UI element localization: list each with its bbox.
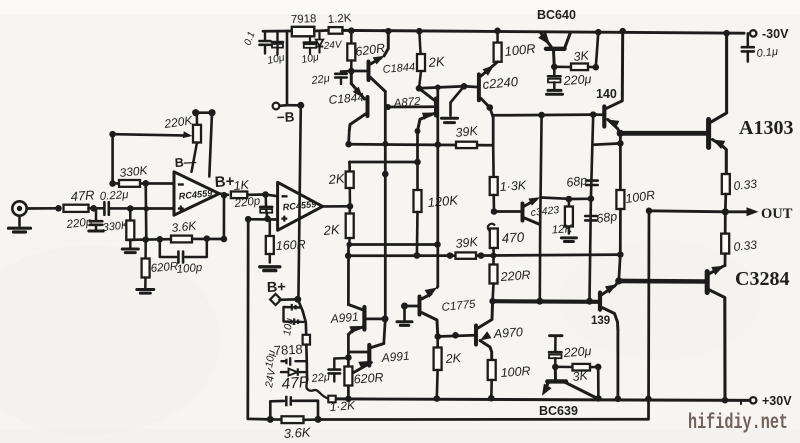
capacitor 220u (BC640) <box>547 67 563 94</box>
node y115 x593 <box>590 111 597 118</box>
op-amp U2 RC4559 <box>278 182 323 230</box>
capacitor 10u (7818 out) <box>282 357 307 366</box>
transistor C1844 (a) <box>369 31 389 91</box>
pot wiper arrow <box>183 131 192 138</box>
resistor 1.3K <box>490 145 498 211</box>
zener 24V <box>316 31 324 53</box>
svg-text:0.33: 0.33 <box>733 238 758 254</box>
svg-text:B—: B— <box>174 155 197 170</box>
capacitor 68p (upper) <box>586 181 598 185</box>
svg-text:B+: B+ <box>214 173 235 191</box>
resistor 12K <box>565 199 573 234</box>
resistor 620R (A991) <box>344 367 352 386</box>
resistor 330K (input to gnd) <box>126 209 134 241</box>
svg-text:2K: 2K <box>427 54 446 71</box>
svg-text:10μ: 10μ <box>281 317 295 336</box>
ground (160R) <box>260 267 280 271</box>
wire reg to 1.2K <box>314 29 328 32</box>
node x649 rail <box>645 396 652 403</box>
node B+ column <box>294 296 301 303</box>
resistor 100R (C2240) <box>494 31 502 62</box>
wire B+ link <box>280 298 298 301</box>
svg-text:470: 470 <box>501 229 525 246</box>
wire A991b base stub <box>350 351 367 354</box>
node x146 on input line <box>144 206 150 212</box>
svg-text:3K: 3K <box>572 368 589 384</box>
resistor 160R <box>266 220 274 263</box>
svg-text:2K: 2K <box>444 351 462 366</box>
wire -minus feedback line <box>113 182 119 185</box>
potentiometer 220K <box>192 113 202 172</box>
svg-text:−B: −B <box>277 109 295 125</box>
svg-text:1.2K: 1.2K <box>327 12 352 26</box>
resistor 3K (BC639) <box>558 364 598 371</box>
svg-text:22μ: 22μ <box>310 371 330 385</box>
resistor 100R (A970) <box>488 360 496 398</box>
svg-text:24V: 24V <box>322 39 343 52</box>
svg-text:7918: 7918 <box>291 13 317 26</box>
svg-text:3K: 3K <box>573 48 590 64</box>
wire C1844a base link <box>351 70 366 73</box>
node rail 620R/A991 <box>345 396 352 403</box>
node rail 100R <box>494 28 501 35</box>
node C1775 emitter <box>435 333 442 340</box>
svg-text:c2240: c2240 <box>482 74 519 92</box>
svg-text:hifidiy.net: hifidiy.net <box>688 412 788 435</box>
capacitor 22u (A991) <box>329 358 349 382</box>
resistor 1K <box>231 192 247 199</box>
wire collector to 1.3K node <box>490 108 493 146</box>
node x540 y301 <box>536 298 543 305</box>
node A970 base tap <box>452 332 459 339</box>
node fb2 <box>157 236 164 243</box>
resistor 1.2K (top) <box>329 27 343 34</box>
wire x438 vertical <box>436 87 439 286</box>
node A872 gnd link <box>461 83 468 90</box>
node loop right <box>315 416 322 423</box>
capacitor 0.1 (reg in) <box>260 31 271 53</box>
node rail 100R <box>488 395 495 402</box>
node U1 out <box>221 192 228 199</box>
svg-text:A991: A991 <box>380 349 410 365</box>
capacitor 0.1u (-30V) <box>742 33 754 61</box>
node y244 left <box>346 242 352 248</box>
regulator 7818 (small box) <box>303 335 310 345</box>
wire -B to column <box>287 104 301 107</box>
svg-text:139: 139 <box>591 315 610 327</box>
node 220p bottom <box>264 216 271 223</box>
wire C2240 base link <box>464 85 477 88</box>
node rail C3284 <box>722 397 729 404</box>
wire 3K drop <box>597 367 600 399</box>
transistor C2240 <box>479 62 498 108</box>
ground (330K) <box>129 240 132 248</box>
svg-text:0.22μ: 0.22μ <box>99 189 129 203</box>
wire A991a collector riser <box>347 245 350 305</box>
resistor 120K <box>414 162 422 256</box>
svg-text:7818: 7818 <box>273 342 303 358</box>
svg-text:3.6K: 3.6K <box>171 218 198 235</box>
resistor 3.6K (bottom) <box>270 416 318 423</box>
node rail 3K <box>595 29 602 36</box>
node x438 y244 <box>434 241 441 248</box>
resistor 220R <box>490 248 498 301</box>
node fb4 <box>221 236 228 243</box>
node out left <box>646 208 653 215</box>
wire thick emitter line to A1303 <box>620 131 706 136</box>
transistor A991 (a) <box>348 305 364 335</box>
svg-text:220R: 220R <box>499 268 531 284</box>
transistor 140 <box>604 31 622 133</box>
node rail 2K <box>416 28 423 35</box>
resistor 2K (C1775) <box>434 337 442 399</box>
wire C3423 collector to 12K node <box>541 198 569 199</box>
wire 139 base line <box>493 299 598 304</box>
capacitor 220u (BC639) <box>549 336 562 367</box>
svg-text:B+: B+ <box>267 279 286 296</box>
node rail C1844 <box>385 28 392 35</box>
wire A991a base link <box>367 318 386 321</box>
node 68p mid <box>588 195 595 202</box>
wire y144 right link <box>593 143 620 144</box>
wire top rail left segment <box>263 30 292 33</box>
node 39K a <box>447 252 454 259</box>
node A872 collector <box>416 85 423 92</box>
wire B- stub into op-amp <box>209 113 212 177</box>
wire squiggle to 1.2K <box>306 378 328 399</box>
node rail 620R <box>348 27 355 34</box>
svg-text:47R: 47R <box>70 187 95 204</box>
resistor 39K (lower) <box>456 252 477 258</box>
wire cap to node <box>109 207 131 210</box>
node input net <box>127 205 134 212</box>
svg-text:BC639: BC639 <box>539 404 578 418</box>
node C1844 base net <box>348 68 355 75</box>
wire fb long vertical x248 <box>248 219 270 419</box>
node -B column top <box>297 102 304 109</box>
svg-text:A1303: A1303 <box>739 117 793 139</box>
terminal -30V <box>750 30 756 36</box>
svg-text:1K: 1K <box>233 178 250 193</box>
svg-text:OUT: OUT <box>761 206 793 222</box>
node 39K b <box>478 252 485 259</box>
node after 47R <box>90 205 97 212</box>
node 22u/620R <box>345 354 352 361</box>
svg-text:A970: A970 <box>492 325 523 341</box>
transistor C3284 <box>707 266 725 401</box>
svg-text:A991: A991 <box>329 310 359 326</box>
wire x620 vertical <box>619 133 622 190</box>
ground (input jack) <box>9 216 31 232</box>
node 220K wiper net <box>109 131 116 138</box>
wire thick to C3284 base <box>619 279 705 284</box>
node y115 x542 <box>538 112 545 119</box>
wire OUT line <box>649 211 725 212</box>
wire U2 plus line <box>248 218 277 221</box>
resistor 620R (fb gnd) <box>142 240 150 288</box>
capacitor 220p (U2) <box>260 195 272 219</box>
svg-text:220μ: 220μ <box>562 344 592 360</box>
node fb right <box>142 180 149 187</box>
node 39K left <box>345 253 352 260</box>
node feedback tap <box>245 216 252 223</box>
resistor 330K (feedback) <box>119 180 140 187</box>
node rail A1303 <box>723 30 730 37</box>
transistor C1844 (b) <box>349 71 367 131</box>
node 139 collector <box>615 277 622 284</box>
node y144 x386 <box>382 141 388 147</box>
node 39K 120K <box>414 252 421 259</box>
wire 139 emitter down <box>616 330 619 399</box>
svg-text:12K: 12K <box>551 223 574 236</box>
transistor A991 (b) <box>351 344 384 375</box>
node OUT <box>722 208 729 215</box>
node rail 139e <box>615 396 622 403</box>
wire B+ column upper <box>298 299 306 335</box>
wire -B drop <box>280 31 288 106</box>
wire U1 out drop <box>223 195 226 239</box>
terminal B+ <box>270 294 281 305</box>
ground (C1775 base) <box>397 306 412 325</box>
wire fb node line y240 <box>128 238 171 241</box>
wire node to op-amp + <box>130 207 174 210</box>
wire 47R to cap <box>89 207 105 210</box>
transistor A872 <box>418 88 437 131</box>
node 39K right <box>617 251 624 258</box>
node x620 y143 <box>617 140 624 147</box>
wire U1 output <box>219 194 228 195</box>
transistor BC640 <box>538 32 570 67</box>
diode 24V (zener) <box>281 368 307 375</box>
node fb3 <box>204 235 211 242</box>
resistor 0.33 (lower) <box>721 212 729 266</box>
svg-text:-30V: -30V <box>762 27 789 41</box>
wire x649 vertical <box>318 211 649 420</box>
wire x541 vertical <box>540 115 542 301</box>
resistor 39K (upper) <box>456 142 477 148</box>
transistor C3423 <box>496 197 540 224</box>
wire 330K up leg <box>111 134 114 183</box>
node y144 left <box>345 141 352 148</box>
resistor 2K (U2 fb upper) <box>346 172 354 207</box>
potentiometer 470 <box>488 224 498 248</box>
wire y162 link <box>350 161 418 164</box>
transistor C1775 <box>420 287 438 337</box>
resistor 620R (top) <box>347 31 355 71</box>
node input junction <box>55 205 62 212</box>
capacitor 68p (lower) <box>585 216 597 220</box>
node loop left <box>267 416 274 423</box>
node rail 3K639 <box>595 395 602 402</box>
node 3K right (BC639) <box>595 364 602 371</box>
node fb left <box>109 180 116 187</box>
capacitor 220p (input to gnd) <box>89 208 104 231</box>
node x593 y301 <box>586 298 593 305</box>
svg-text:1·3K: 1·3K <box>499 178 527 194</box>
wire x593 vertical <box>591 115 593 199</box>
resistor 47R <box>64 205 89 212</box>
svg-text:120K: 120K <box>427 192 460 210</box>
ground (A872) <box>442 86 465 122</box>
wire 220K wiper line <box>113 134 189 135</box>
node A991 base tie <box>382 315 389 322</box>
node A872 base <box>385 104 391 110</box>
input RCA jack J1 <box>12 201 26 215</box>
resistor 100R (vas load) <box>616 190 624 255</box>
svg-text:39K: 39K <box>455 124 479 140</box>
node BC639 base net <box>552 364 559 371</box>
svg-text:2K: 2K <box>322 222 341 239</box>
wire -B column down <box>298 105 300 299</box>
wire 3K to rail <box>596 32 599 67</box>
svg-text:68p: 68p <box>595 209 618 226</box>
op-amp U1 RC4559 <box>174 172 219 215</box>
svg-text:620R: 620R <box>150 261 178 275</box>
wire 1K to U2 minus <box>247 193 265 196</box>
capacitor 10u (reg out) <box>304 36 317 53</box>
wire A872 base line <box>388 105 433 108</box>
wire top rail main <box>343 30 745 33</box>
node pot top <box>192 109 199 116</box>
capacitor 10u loop (7818 in) <box>284 304 304 325</box>
node A872 emitter kink <box>415 128 421 134</box>
resistor 1.2K (bottom box) <box>328 396 335 403</box>
wire x620 down to 139 <box>619 255 621 281</box>
svg-text:1·2K: 1·2K <box>329 398 356 414</box>
svg-text:140: 140 <box>596 87 617 101</box>
svg-text:0.1μ: 0.1μ <box>756 46 778 60</box>
node rail T140 <box>619 28 626 35</box>
svg-text:0.33: 0.33 <box>733 177 758 193</box>
node x386 y174 <box>382 171 389 178</box>
node vas out <box>489 298 496 305</box>
wire pot top link <box>196 111 212 114</box>
wire U2 out <box>323 205 350 208</box>
wire emitter chain down <box>416 131 419 162</box>
transistor 139 <box>600 281 619 330</box>
terminal -B <box>273 103 280 110</box>
resistor 3.6K (fb) <box>171 236 192 243</box>
resistor 2K (A872 load) <box>417 31 425 88</box>
wire bottom rail <box>336 399 751 401</box>
node 12K top <box>566 196 573 203</box>
wire C1775 base <box>406 305 418 308</box>
svg-text:3.6K: 3.6K <box>283 425 312 441</box>
wire 140 base link <box>593 113 602 116</box>
capacitor 10u (reg in) <box>272 31 283 54</box>
transistor A1303 <box>709 33 727 174</box>
svg-text:160R: 160R <box>275 237 306 253</box>
svg-text:+30V: +30V <box>762 394 792 408</box>
wire input line <box>27 207 59 210</box>
node rail 2K <box>434 395 441 402</box>
capacitor 22u (top) <box>335 71 351 84</box>
ground (620R fb) <box>137 290 154 294</box>
svg-text:C3284: C3284 <box>735 268 789 290</box>
svg-text:620R: 620R <box>353 370 384 386</box>
transistor BC639 <box>542 367 597 398</box>
wire y115 line <box>493 113 593 116</box>
node 470 bottom <box>491 253 497 259</box>
wire minus input drop <box>144 183 147 239</box>
resistor 0.33 (upper) <box>722 174 730 212</box>
resistor 2K (U2 fb lower) <box>346 206 354 244</box>
ground (12K) <box>561 238 576 242</box>
wire A970 base line <box>438 335 474 336</box>
node U2 minus <box>262 191 269 198</box>
wire 12K link <box>569 197 588 200</box>
node C1775 base gnd <box>401 303 408 310</box>
node C3423 base <box>491 208 498 215</box>
capacitor 100p loop <box>160 239 207 263</box>
wire B+ column mid <box>305 345 308 378</box>
wire y144 line <box>349 143 456 147</box>
svg-text:68p: 68p <box>565 173 588 190</box>
svg-text:100p: 100p <box>176 262 203 276</box>
svg-text:100R: 100R <box>500 364 531 380</box>
terminal +30V <box>741 397 756 405</box>
node y162 <box>414 159 421 166</box>
node B- supply tap <box>208 109 215 116</box>
wire x385 long vertical <box>384 92 387 319</box>
node U2 out <box>347 203 354 210</box>
node C2240 collector <box>487 104 494 111</box>
wire A872 collector link <box>419 86 464 88</box>
wire y244 line <box>349 243 437 246</box>
node BC640 out <box>551 64 558 71</box>
wire 39K line <box>348 254 455 257</box>
node y144 x438 <box>435 141 442 148</box>
wire OUT arrow <box>725 210 752 213</box>
node 3K right <box>593 64 600 71</box>
wire C1844b collector drop <box>347 131 350 145</box>
regulator 7918 <box>292 27 315 37</box>
svg-text:220μ: 220μ <box>562 72 592 88</box>
wire x348 lower vertical <box>347 335 350 399</box>
capacitor (3.6K loop) <box>270 396 318 420</box>
transistor A970 <box>476 301 493 360</box>
svg-text:39K: 39K <box>455 235 479 251</box>
node x438 top <box>435 84 441 90</box>
capacitor 0.22u <box>104 202 108 215</box>
node x620 y133 <box>617 130 624 137</box>
svg-text:2K: 2K <box>327 171 346 188</box>
resistor 3K (BC640) <box>557 64 596 71</box>
node fb1 <box>142 236 149 243</box>
wire 2Ka top leg <box>348 162 351 172</box>
svg-text:BC640: BC640 <box>537 8 576 22</box>
